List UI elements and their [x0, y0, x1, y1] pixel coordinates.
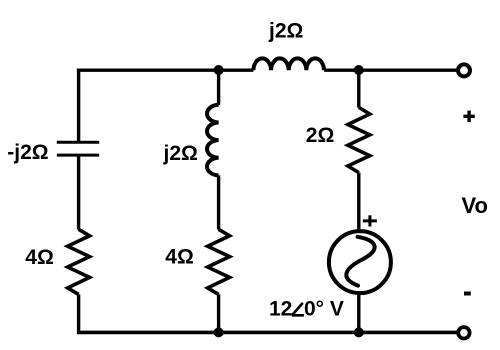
- wire right vertical (below source): [357, 293, 360, 332]
- resistor 4Ω left: [68, 229, 90, 294]
- label 4Ω left: [25, 246, 54, 269]
- label + output polarity: [463, 111, 474, 122]
- svg-text:j2Ω: j2Ω: [268, 20, 303, 43]
- wire left vertical (top, above capacitor): [77, 69, 80, 142]
- node bottom-middle junction: [214, 327, 224, 337]
- label 4Ω middle: [165, 246, 194, 269]
- capacitor -j2Ω: [57, 142, 99, 155]
- wire bottom horizontal: [77, 331, 459, 335]
- inductor j2Ω middle (vertical coil): [207, 105, 219, 176]
- wire top-right horizontal to terminal: [359, 68, 459, 71]
- label Vo: [462, 193, 488, 218]
- svg-text:0° V: 0° V: [304, 298, 344, 321]
- wire middle vertical (top, above inductor): [217, 70, 220, 105]
- source polarity + mark: [363, 215, 377, 226]
- svg-text:4Ω: 4Ω: [165, 246, 194, 269]
- terminal top-right (open circle): [458, 64, 470, 76]
- label 2Ω: [306, 124, 335, 147]
- source U1 AC voltage source circle: [329, 231, 391, 293]
- wire middle vertical (bottom): [217, 294, 220, 332]
- wire left vertical (bottom): [77, 294, 80, 332]
- svg-text:2Ω: 2Ω: [306, 124, 335, 147]
- wire right vertical (above resistor 2Ω): [357, 70, 360, 107]
- svg-text:Vo: Vo: [462, 193, 488, 218]
- svg-text:4Ω: 4Ω: [25, 246, 54, 269]
- wire top-left horizontal: [77, 68, 219, 71]
- wire left vertical (between capacitor and resistor): [77, 156, 80, 230]
- source sine wave: [346, 237, 374, 286]
- label j2Ω middle: [163, 142, 198, 165]
- wire from top-middle node to inductor L1: [219, 68, 254, 71]
- wire right vertical (between resistor and source): [357, 173, 360, 230]
- svg-text:j2Ω: j2Ω: [163, 142, 198, 165]
- resistor 2Ω: [348, 107, 370, 172]
- wire middle vertical (between inductor and resistor): [217, 175, 220, 229]
- node top-middle junction: [214, 65, 224, 75]
- label - output polarity: [464, 292, 471, 296]
- label j2Ω top: [268, 20, 303, 43]
- resistor 4Ω middle: [208, 229, 230, 294]
- wire from inductor L1 to top-right node: [324, 68, 359, 71]
- node bottom-right junction: [354, 327, 364, 337]
- inductor j2Ω top (horizontal coil): [253, 58, 324, 70]
- svg-text:12: 12: [269, 298, 292, 321]
- terminal bottom-right (open circle): [458, 327, 469, 338]
- svg-text:-j2Ω: -j2Ω: [7, 141, 48, 164]
- label -j2Ω: [7, 141, 48, 164]
- label 12∠0° V (angle symbol drawn): [269, 298, 344, 321]
- node top-right junction: [354, 65, 364, 75]
